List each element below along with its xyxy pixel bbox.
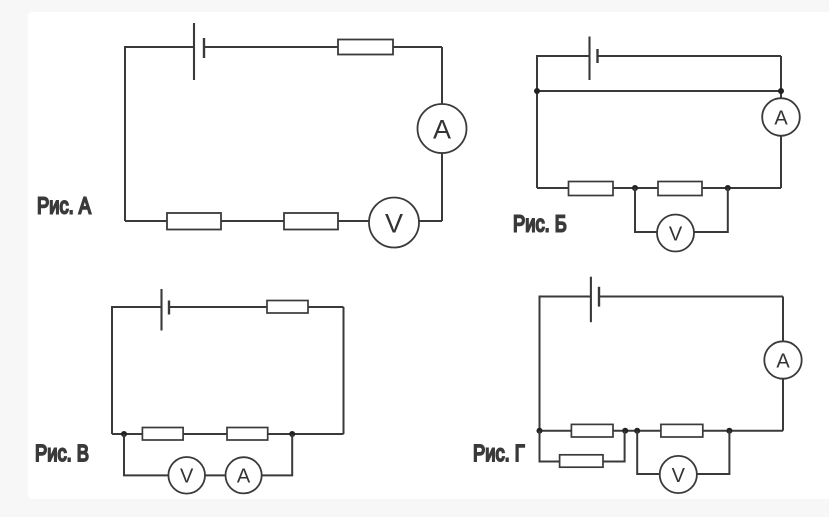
wire between resistors: [613, 187, 658, 189]
svg-text:V: V: [669, 223, 683, 245]
resistor R4 (bottom left, circuit Б): [569, 182, 614, 196]
wire bottom right segment: [702, 187, 781, 189]
wire between meters: [205, 474, 226, 476]
resistor R10 (bottom right, circuit Г): [661, 424, 703, 437]
voltmeter V1 (circuit A): [369, 198, 419, 248]
resistor R9 (bottom left, circuit Г): [571, 424, 613, 437]
svg-text:A: A: [774, 107, 788, 129]
wire battery to right corner Г: [599, 296, 783, 298]
wire middle rail: [537, 90, 781, 92]
ammeter A2 (circuit Б): [762, 98, 800, 136]
node right resistor junction: [725, 185, 731, 191]
resistor R6 (top, circuit В): [267, 301, 308, 314]
svg-text:Рис. Б: Рис. Б: [513, 211, 567, 237]
wire right side В: [343, 307, 345, 434]
svg-text:V: V: [180, 466, 194, 488]
wire battery to right corner: [598, 55, 782, 57]
resistor R11 (parallel, circuit Г): [560, 455, 603, 467]
svg-text:V: V: [672, 465, 686, 487]
wire parallel branch left: [540, 431, 560, 462]
wire R6 to right corner: [308, 306, 344, 308]
wire ammeter to bottom corner: [441, 153, 443, 221]
wire bottom right segment В: [268, 433, 344, 435]
wire battery to resistor R6: [169, 306, 267, 308]
voltmeter V3 (circuit В): [168, 457, 205, 494]
wire left+top segment Б: [537, 56, 590, 188]
wire left+top segment Г: [540, 297, 591, 431]
wire R2 to left corner: [125, 220, 167, 222]
node left voltmeter junction Г: [634, 428, 640, 434]
svg-text:Рис. А: Рис. А: [37, 193, 91, 219]
battery GB2 long plate: [588, 37, 590, 81]
wire right side down to ammeter: [441, 47, 443, 104]
resistor R8 (bottom right, circuit В): [227, 428, 268, 441]
node left resistor junction: [632, 185, 638, 191]
wire R3 to R2: [221, 220, 284, 222]
node right parallel junction Г: [622, 428, 628, 434]
resistor R1 (top, circuit A): [338, 40, 393, 55]
ammeter A1 (circuit A): [418, 104, 467, 153]
resistor R5 (bottom right, circuit Б): [658, 182, 702, 196]
svg-text:A: A: [776, 350, 790, 372]
svg-text:A: A: [237, 466, 251, 488]
svg-text:V: V: [385, 208, 403, 238]
node right meter junction: [289, 431, 295, 437]
wire R4 to left corner: [537, 187, 569, 189]
wire voltmeter stub left: [635, 188, 658, 232]
wire R9 to left corner Г: [540, 430, 572, 432]
wire voltmeter stub left Г: [637, 431, 660, 474]
wire bottom right segment Г: [703, 430, 783, 432]
wire voltmeter to resistor R3: [338, 220, 369, 222]
wire between bottom resistors В: [183, 433, 227, 435]
wire right side to ammeter Г: [782, 297, 784, 342]
resistor R2 (bottom left, circuit A): [167, 213, 221, 230]
wire battery to resistor R1: [204, 46, 338, 48]
battery GB4 long plate: [590, 277, 592, 323]
battery GB1 short plate: [203, 38, 205, 58]
resistor R3 (bottom right, circuit A): [284, 213, 338, 230]
svg-text:A: A: [433, 114, 451, 144]
node left middle rail: [534, 88, 540, 94]
wire meter stub right: [262, 434, 293, 475]
wire voltmeter stub right: [694, 188, 728, 232]
voltmeter V2 (circuit Б): [657, 215, 694, 252]
wire ammeter down: [780, 136, 782, 188]
ammeter A3 (circuit В): [226, 457, 262, 493]
wire left+top segment В: [112, 307, 162, 434]
wire R7 to left corner: [112, 433, 142, 435]
wire corner to voltmeter: [419, 220, 442, 222]
wire voltmeter stub right Г: [697, 431, 729, 474]
wire parallel branch right: [603, 431, 625, 462]
battery GB4 short plate: [598, 287, 600, 307]
node right voltmeter junction Г: [726, 428, 732, 434]
voltmeter V4 (circuit Г): [660, 456, 697, 493]
node left meter junction: [121, 431, 127, 437]
battery GB3 long plate: [160, 289, 162, 331]
battery GB1 long plate: [193, 23, 195, 80]
wire ammeter to bottom corner Г: [782, 379, 784, 431]
battery GB2 short plate: [596, 49, 598, 63]
wire right side top: [780, 56, 782, 99]
svg-text:Рис. В: Рис. В: [35, 441, 89, 467]
battery GB3 short plate: [168, 301, 170, 315]
wire R1 to corner: [393, 46, 442, 48]
ammeter A4 (circuit Г): [764, 341, 801, 378]
node right middle rail: [778, 88, 784, 94]
node left parallel junction Г: [537, 428, 543, 434]
resistor R7 (bottom left, circuit В): [142, 428, 183, 441]
svg-text:Рис. Г: Рис. Г: [473, 441, 525, 467]
wire between bottom resistors Г: [613, 430, 661, 432]
wire left+top segment A: [125, 47, 194, 221]
wire meter stub left: [124, 434, 168, 475]
